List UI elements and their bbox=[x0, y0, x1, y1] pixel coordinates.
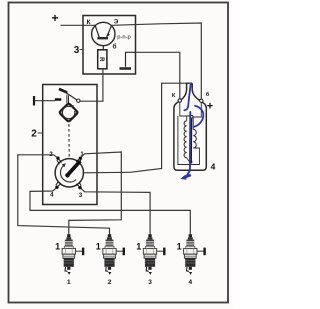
cam circle bbox=[62, 106, 75, 119]
dashed shaft line bbox=[68, 124, 70, 158]
wire terminal 3 to plug 3 bbox=[81, 189, 150, 235]
wire coil К to ground in box 3 bbox=[136, 52, 180, 99]
wire terminal 1 to plug 1 bbox=[69, 152, 122, 235]
rotor terminal 2 bbox=[56, 157, 61, 165]
rotor terminal 3 bbox=[76, 182, 81, 189]
cam follower bbox=[66, 95, 68, 103]
spark plug 3 bbox=[136, 234, 164, 286]
cam (diamond) bbox=[60, 104, 78, 122]
svg-text:+: + bbox=[207, 101, 213, 113]
spark plug 2 bbox=[96, 234, 124, 286]
spark plug 1 bbox=[55, 234, 83, 286]
resistor R bbox=[98, 50, 107, 69]
svg-text:Э: Э bbox=[114, 19, 119, 26]
wire bar to fixed contact bbox=[35, 100, 55, 102]
distributor box 2 bbox=[43, 85, 97, 205]
wire + to transistor collector bbox=[61, 24, 96, 26]
svg-text:2: 2 bbox=[31, 129, 37, 140]
wire emitter to coil terminal б bbox=[112, 23, 202, 99]
svg-text:1: 1 bbox=[177, 242, 182, 252]
coil secondary terminal circle bbox=[190, 115, 193, 118]
svg-text:1: 1 bbox=[96, 242, 101, 252]
rotor terminal 4 bbox=[55, 182, 61, 189]
svg-text:4: 4 bbox=[188, 279, 192, 286]
svg-text:4: 4 bbox=[50, 193, 54, 199]
svg-text:1: 1 bbox=[67, 279, 71, 286]
svg-text:3: 3 bbox=[148, 279, 152, 286]
coil terminal б bbox=[200, 99, 203, 102]
svg-text:+: + bbox=[51, 11, 58, 25]
coil terminal К bbox=[178, 99, 181, 102]
svg-text:б: б bbox=[112, 43, 116, 51]
svg-text:3: 3 bbox=[74, 45, 80, 56]
rotor circle bbox=[55, 159, 83, 187]
svg-text:б: б bbox=[206, 91, 210, 98]
blue annotation stroke through coil bbox=[184, 85, 190, 111]
breaker moving contact bbox=[59, 89, 67, 93]
rotor terminal 1 bbox=[76, 157, 82, 164]
commutator box 3 bbox=[83, 16, 136, 75]
svg-text:4: 4 bbox=[211, 162, 216, 172]
svg-text:К: К bbox=[87, 19, 91, 26]
ignition coil 4 outline bbox=[174, 83, 206, 170]
rotor arm bbox=[66, 161, 80, 177]
condenser terminal (left bar) bbox=[33, 96, 35, 106]
svg-text:R: R bbox=[98, 57, 104, 62]
svg-text:p-n-p: p-n-p bbox=[117, 35, 131, 41]
svg-text:1: 1 bbox=[55, 242, 60, 252]
breaker fixed contact bbox=[55, 98, 62, 101]
breaker lever bbox=[64, 91, 78, 100]
wire terminal 2 to plug 2 bbox=[18, 155, 110, 235]
transistor Q1 p-n-p bbox=[92, 22, 115, 50]
cam rotation arrow bbox=[71, 105, 74, 108]
svg-text:К: К bbox=[172, 93, 176, 99]
spark plug 4 bbox=[177, 234, 205, 286]
wire base resistor to breaker pivot bbox=[80, 69, 103, 102]
svg-text:3: 3 bbox=[79, 193, 83, 199]
coil HV centre lead bbox=[190, 118, 192, 161]
svg-text:1: 1 bbox=[136, 242, 141, 252]
rotor rotation arrow bbox=[60, 166, 76, 182]
svg-text:2: 2 bbox=[108, 279, 112, 286]
blue arrow head bbox=[184, 175, 190, 177]
wire terminal 4 to plug 4 bbox=[30, 188, 190, 234]
coil internal frame bbox=[178, 102, 201, 164]
wire rotor centre to coil HV (neck) bbox=[82, 83, 189, 173]
coil secondary winding bbox=[184, 121, 187, 158]
breaker pivot bbox=[77, 99, 80, 102]
coil primary winding bbox=[193, 129, 196, 148]
ground (inside box 3) bbox=[120, 52, 136, 68]
